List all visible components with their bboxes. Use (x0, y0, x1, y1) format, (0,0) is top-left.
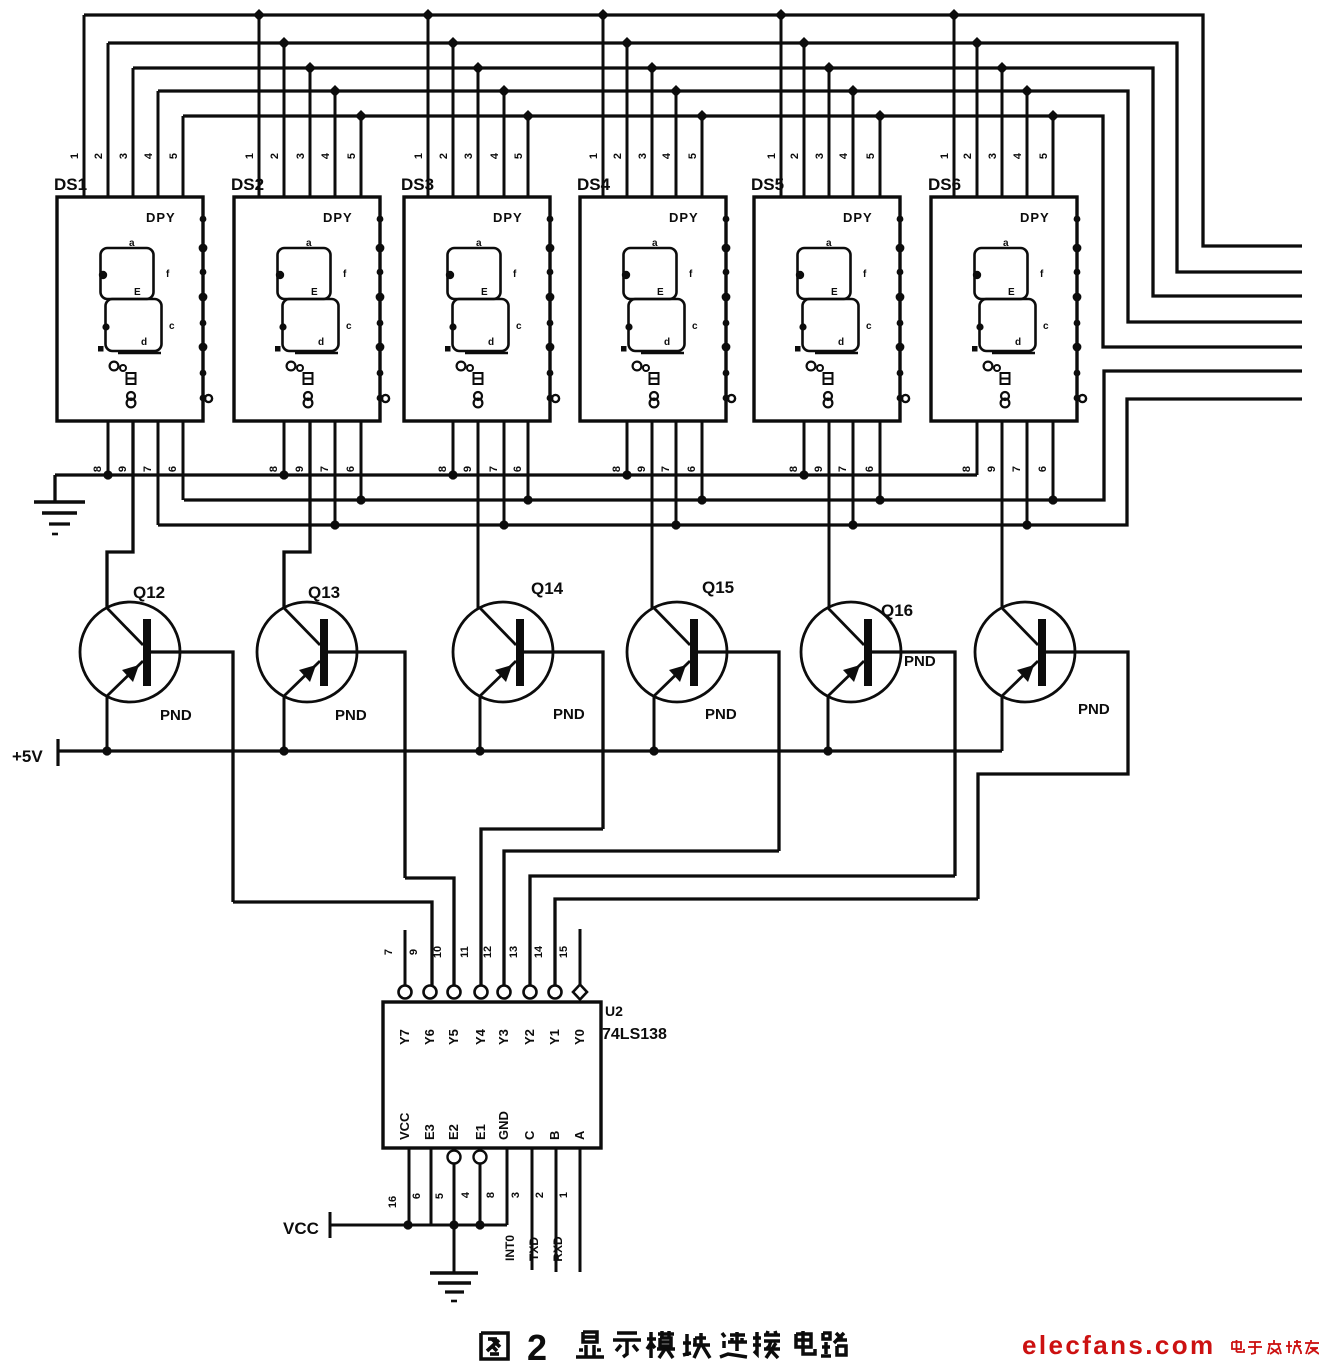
svg-text:E: E (1008, 287, 1015, 298)
svg-text:DS4: DS4 (577, 175, 611, 194)
7-segment display DS3 (401, 15, 559, 421)
+5V power rail (58, 749, 1002, 752)
wire bus2 (108, 43, 1302, 272)
svg-text:DS1: DS1 (54, 175, 87, 194)
svg-text:U2: U2 (605, 1003, 623, 1019)
7-segment display DS2 (231, 15, 389, 421)
junction bus5/DS3 pin5 (522, 110, 534, 122)
svg-text:d: d (838, 337, 844, 348)
junction bus3/DS5 pin3 (823, 62, 835, 74)
svg-text:c: c (1043, 321, 1049, 332)
junction bus2/DS5 pin2 (798, 37, 810, 49)
svg-text:74LS138: 74LS138 (602, 1026, 667, 1043)
svg-text:2: 2 (789, 153, 801, 159)
junction bus5/DS2 pin5 (355, 110, 367, 122)
svg-text:PND: PND (705, 706, 737, 723)
svg-text:Y5: Y5 (446, 1029, 461, 1045)
DS1 bottom pin wires (92, 421, 183, 608)
svg-text:d: d (318, 337, 324, 348)
wire base of Q17 (978, 652, 1128, 899)
svg-text:Y6: Y6 (422, 1029, 437, 1045)
svg-text:2: 2 (93, 153, 105, 159)
svg-text:6: 6 (411, 1193, 423, 1199)
junction bus1/DS6 pin1 (948, 9, 960, 21)
svg-text:6: 6 (512, 466, 524, 472)
wire bottom bus A (common, to ground) (55, 473, 977, 476)
wire bus3 (133, 68, 1302, 296)
svg-text:Q16: Q16 (881, 601, 913, 620)
svg-text:VCC: VCC (397, 1112, 412, 1140)
wire emitter of Q13 to +5V rail (283, 696, 286, 751)
svg-text:E: E (311, 287, 318, 298)
svg-text:5: 5 (865, 153, 877, 159)
svg-text:DPY: DPY (146, 210, 176, 225)
svg-text:PND: PND (904, 653, 936, 670)
svg-text:12: 12 (482, 946, 494, 958)
svg-text:1: 1 (766, 153, 778, 159)
svg-text:d: d (488, 337, 494, 348)
junction bus5/DS6 pin5 (1047, 110, 1059, 122)
svg-text:PND: PND (335, 707, 367, 724)
svg-text:B: B (547, 1131, 562, 1140)
svg-text:3: 3 (814, 153, 826, 159)
svg-text:6: 6 (686, 466, 698, 472)
DS5 bottom pin wires (788, 421, 885, 608)
svg-text:8: 8 (485, 1192, 497, 1198)
svg-text:elecfans.com: elecfans.com (1022, 1330, 1216, 1360)
svg-text:VCC: VCC (283, 1219, 319, 1238)
junction bus4/DS6 pin4 (1021, 85, 1033, 97)
svg-text:E: E (831, 287, 838, 298)
wire bus5 (183, 116, 1302, 347)
svg-text:6: 6 (167, 466, 179, 472)
svg-text:4: 4 (143, 152, 155, 159)
junction bus5/DS4 pin5 (696, 110, 708, 122)
wire Q13 base to U2 pin Y5 (405, 878, 454, 986)
svg-text:5: 5 (513, 153, 525, 159)
7-segment display DS6 (928, 15, 1086, 421)
svg-text:INT0: INT0 (503, 1235, 517, 1261)
svg-text:Y4: Y4 (473, 1028, 488, 1045)
svg-text:Q14: Q14 (531, 579, 564, 598)
svg-text:9: 9 (986, 466, 998, 472)
svg-text:7: 7 (837, 466, 849, 472)
svg-text:PND: PND (160, 707, 192, 724)
svg-text:9: 9 (294, 466, 306, 472)
svg-text:d: d (664, 337, 670, 348)
svg-text:DPY: DPY (493, 210, 523, 225)
svg-text:7: 7 (319, 466, 331, 472)
svg-text:5: 5 (434, 1193, 446, 1199)
svg-text:1: 1 (558, 1192, 570, 1198)
svg-text:5: 5 (168, 153, 180, 159)
svg-text:2: 2 (438, 153, 450, 159)
svg-text:13: 13 (508, 946, 520, 958)
svg-text:d: d (1015, 337, 1021, 348)
junction bus1/DS4 pin1 (597, 9, 609, 21)
decoder U2 74LS138 (383, 945, 667, 1148)
svg-text:c: c (866, 321, 872, 332)
svg-text:DPY: DPY (323, 210, 353, 225)
junction bus3/DS3 pin3 (472, 62, 484, 74)
svg-text:PND: PND (1078, 701, 1110, 718)
U2 pin 16 (VCC) (408, 1148, 411, 1225)
svg-text:9: 9 (462, 466, 474, 472)
junction bus2/DS6 pin2 (971, 37, 983, 49)
svg-text:d: d (141, 337, 147, 348)
svg-text:3: 3 (463, 153, 475, 159)
svg-text:9: 9 (813, 466, 825, 472)
wire stub U2 pin Y0 (579, 929, 582, 985)
svg-text:8: 8 (611, 466, 623, 472)
wire base of Q14 (524, 652, 603, 829)
svg-text:7: 7 (142, 466, 154, 472)
svg-text:5: 5 (687, 153, 699, 159)
VCC net at bottom (330, 1224, 507, 1227)
PNP transistor Q13 (257, 583, 367, 724)
svg-text:16: 16 (387, 1196, 399, 1208)
wire base of Q12 (151, 652, 233, 902)
svg-text:1: 1 (588, 153, 600, 159)
watermark 电子发烧友 (1232, 1340, 1319, 1354)
svg-text:8: 8 (788, 466, 800, 472)
wire bottom bus B wrapping to right edge (184, 371, 1302, 500)
svg-text:3: 3 (637, 153, 649, 159)
svg-text:Y1: Y1 (547, 1029, 562, 1045)
svg-text:DPY: DPY (669, 210, 699, 225)
svg-text:C: C (522, 1130, 537, 1140)
svg-text:8: 8 (961, 466, 973, 472)
svg-text:E1: E1 (473, 1124, 488, 1140)
svg-text:6: 6 (1037, 466, 1049, 472)
svg-text:4: 4 (460, 1191, 472, 1198)
wire base of Q16 (872, 652, 955, 876)
junction bus4/DS3 pin4 (498, 85, 510, 97)
junction bus4/DS4 pin4 (670, 85, 682, 97)
svg-text:5: 5 (1038, 153, 1050, 159)
junction bus4/DS5 pin4 (847, 85, 859, 97)
junction bus2/DS2 pin2 (278, 37, 290, 49)
DS4 bottom pin wires (611, 421, 707, 608)
svg-text:Y0: Y0 (572, 1029, 587, 1045)
DS6 bottom pin wires (961, 421, 1058, 608)
wire base of Q15 (698, 652, 779, 851)
svg-text:1: 1 (244, 153, 256, 159)
svg-text:2: 2 (534, 1192, 546, 1198)
junction bus3/DS2 pin3 (304, 62, 316, 74)
U2 pin 8 (GND) (506, 1148, 509, 1225)
svg-text:4: 4 (1012, 152, 1024, 159)
svg-text:4: 4 (838, 152, 850, 159)
svg-text:14: 14 (533, 945, 545, 958)
DS3 bottom pin wires (437, 421, 533, 608)
svg-text:4: 4 (661, 152, 673, 159)
junction bus4/DS2 pin4 (329, 85, 341, 97)
svg-text:RXD: RXD (551, 1236, 565, 1262)
svg-text:E: E (481, 287, 488, 298)
U2 pin 5 (E2) with bubble (448, 1151, 461, 1164)
svg-text:7: 7 (383, 949, 395, 955)
wire stub U2 pin Y7 (404, 930, 407, 986)
junction bus5/DS5 pin5 (874, 110, 886, 122)
caption 图2 显示模块连接电路 (481, 1327, 847, 1366)
U2 pin 1 (A) wire to RXD (579, 1148, 582, 1272)
wire Q15 base to U2 pin Y3 (504, 851, 779, 986)
U2 pin 2 (B) wire to TXD (555, 1148, 558, 1272)
ground symbol bottom (430, 1271, 478, 1275)
svg-text:7: 7 (488, 466, 500, 472)
svg-text:1: 1 (939, 153, 951, 159)
svg-text:8: 8 (268, 466, 280, 472)
svg-text:11: 11 (459, 946, 471, 958)
svg-text:2: 2 (612, 153, 624, 159)
junction bus2/DS4 pin2 (621, 37, 633, 49)
svg-text:DS5: DS5 (751, 175, 784, 194)
svg-text:8: 8 (437, 466, 449, 472)
wire emitter of Q14 to +5V rail (479, 696, 482, 751)
wire Q14 base to U2 pin Y4 (481, 829, 603, 986)
svg-text:1: 1 (413, 153, 425, 159)
PNP transistor Q15 (627, 578, 737, 723)
svg-text:c: c (692, 321, 698, 332)
svg-text:3: 3 (295, 153, 307, 159)
junction bus1/DS3 pin1 (422, 9, 434, 21)
svg-text:5: 5 (346, 153, 358, 159)
svg-text:DPY: DPY (843, 210, 873, 225)
junction bus3/DS6 pin3 (996, 62, 1008, 74)
svg-text:A: A (572, 1130, 587, 1140)
svg-text:c: c (516, 321, 522, 332)
PNP transistor Q16 (801, 601, 936, 702)
wire bottom bus C wrapping to right edge (158, 399, 1302, 525)
svg-text:Y7: Y7 (397, 1029, 412, 1045)
svg-text:+5V: +5V (12, 747, 43, 766)
U2 pin 4 (E1) with bubble (474, 1151, 487, 1164)
junction bus3/DS4 pin3 (646, 62, 658, 74)
wire emitter of Q12 to +5V rail (106, 696, 109, 751)
svg-text:c: c (346, 321, 352, 332)
svg-text:8: 8 (92, 466, 104, 472)
svg-text:4: 4 (489, 152, 501, 159)
svg-text:4: 4 (320, 152, 332, 159)
svg-text:E2: E2 (446, 1124, 461, 1140)
svg-text:1: 1 (69, 153, 81, 159)
wire emitter of Q15 to +5V rail (653, 696, 656, 751)
svg-text:E: E (134, 287, 141, 298)
svg-text:2: 2 (269, 153, 281, 159)
svg-text:c: c (169, 321, 175, 332)
wire Q17 base to U2 pin Y1 (555, 899, 978, 986)
wire emitter of Q16 to +5V rail (827, 696, 830, 751)
PNP transistor Q14 (453, 579, 585, 723)
junction bus1/DS2 pin1 (253, 9, 265, 21)
svg-text:3: 3 (118, 153, 130, 159)
svg-text:6: 6 (864, 466, 876, 472)
svg-text:E: E (657, 287, 664, 298)
svg-text:Y3: Y3 (496, 1029, 511, 1045)
svg-text:7: 7 (1011, 466, 1023, 472)
svg-text:DPY: DPY (1020, 210, 1050, 225)
wire base of Q13 (328, 652, 405, 878)
svg-text:9: 9 (117, 466, 129, 472)
wire Q12 base to U2 pin Y6 (233, 902, 432, 986)
DS2 bottom pin wires (268, 421, 366, 608)
svg-text:2: 2 (962, 153, 974, 159)
7-segment display DS1 (54, 15, 212, 421)
U2 pin 6 (E3) (430, 1148, 433, 1225)
svg-text:3: 3 (987, 153, 999, 159)
junction bus2/DS3 pin2 (447, 37, 459, 49)
svg-text:7: 7 (660, 466, 672, 472)
svg-text:9: 9 (636, 466, 648, 472)
svg-text:E3: E3 (422, 1124, 437, 1140)
svg-text:GND: GND (496, 1111, 511, 1140)
PNP transistor Q17 (975, 602, 1110, 718)
ground symbol left (53, 475, 56, 502)
svg-text:DS6: DS6 (928, 175, 961, 194)
svg-text:15: 15 (558, 946, 570, 958)
svg-text:6: 6 (345, 466, 357, 472)
svg-text:3: 3 (510, 1192, 522, 1198)
svg-text:2: 2 (527, 1327, 547, 1366)
svg-text:10: 10 (432, 946, 444, 958)
wire emitter of Q17 to +5V rail (1001, 696, 1004, 751)
junction bus1/DS5 pin1 (775, 9, 787, 21)
wire bus4 (158, 91, 1302, 322)
svg-text:Q15: Q15 (702, 578, 734, 597)
svg-text:Q12: Q12 (133, 583, 165, 602)
wire bus1 (84, 15, 1302, 246)
svg-text:PND: PND (553, 706, 585, 723)
svg-text:TXD: TXD (527, 1237, 541, 1261)
7-segment display DS5 (751, 15, 909, 421)
7-segment display DS4 (577, 15, 735, 421)
svg-text:Q13: Q13 (308, 583, 340, 602)
svg-text:9: 9 (408, 949, 420, 955)
U2 pin 3 (C) wire to INT0 (531, 1148, 534, 1270)
svg-text:Y2: Y2 (522, 1029, 537, 1045)
wire Q16 base to U2 pin Y2 (530, 876, 955, 986)
PNP transistor Q12 (80, 583, 192, 724)
